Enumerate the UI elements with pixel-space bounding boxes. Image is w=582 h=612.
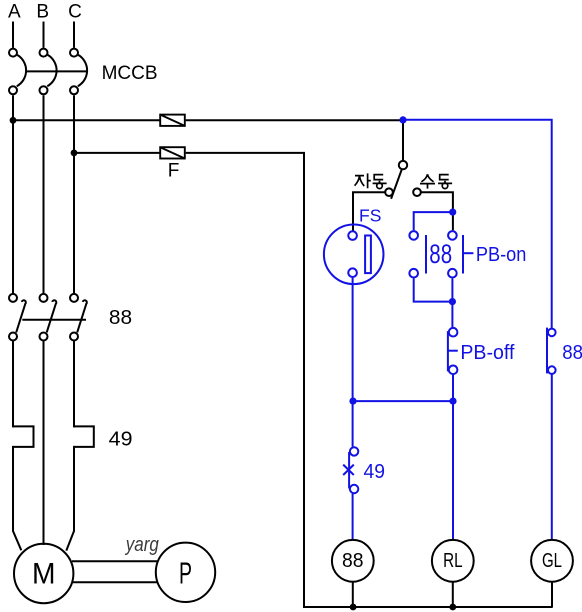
wire holding contact bottom [414, 278, 453, 301]
selector switch common [399, 161, 407, 169]
wire left return [303, 153, 305, 607]
junction selector feed [399, 116, 406, 123]
junction coil bus [350, 604, 357, 611]
wire phase C top [73, 22, 75, 48]
wire pb-on bottom [451, 278, 453, 327]
wire lower feed right [186, 152, 305, 154]
svg-text:88: 88 [109, 307, 132, 329]
wire selector feed [402, 120, 404, 160]
svg-text:GL: GL [542, 549, 562, 572]
svg-text:yarg: yarg [124, 534, 159, 556]
svg-text:M: M [32, 557, 56, 590]
wire bottom bus [303, 606, 553, 608]
junction manual branch [449, 209, 456, 216]
pushbutton PB-on [448, 231, 473, 277]
pump P [156, 543, 215, 602]
wire phase C to motor [66, 446, 74, 551]
wire GL to bus [551, 582, 553, 608]
breaker MCCB [9, 49, 88, 95]
svg-text:F: F [168, 161, 180, 182]
junction RL bus [449, 604, 456, 611]
wire pb-off to RL [452, 375, 454, 540]
svg-text:PB-off: PB-off [460, 342, 514, 364]
svg-text:FS: FS [359, 205, 381, 225]
junction coil branch [449, 398, 456, 405]
junction phase A control tap [10, 117, 17, 124]
svg-text:49: 49 [109, 429, 133, 451]
label 수동 [420, 174, 452, 188]
contact 88 break [547, 328, 556, 374]
wire phase C [73, 95, 75, 293]
svg-text:88: 88 [342, 550, 364, 572]
svg-text:88: 88 [429, 239, 452, 269]
junction phase C control tap [71, 150, 78, 157]
svg-text:RL: RL [443, 549, 463, 572]
junction FS branch [349, 398, 356, 405]
svg-text:P: P [179, 556, 192, 591]
wire 88 break to GL [551, 374, 553, 540]
wire coil 88 to bus [352, 582, 354, 608]
svg-text:49: 49 [364, 461, 386, 483]
wire control feed upper [13, 119, 160, 121]
wire phase A [12, 95, 14, 293]
wire phase B top [43, 22, 45, 48]
coupling shaft [72, 561, 157, 582]
svg-text:A: A [8, 2, 21, 23]
svg-text:MCCB: MCCB [102, 63, 158, 84]
motor M [14, 544, 73, 603]
wire phase B [43, 95, 45, 293]
coil 88 [332, 540, 374, 582]
svg-text:88: 88 [562, 341, 582, 364]
junction holding bottom [449, 298, 456, 305]
svg-text:PB-on: PB-on [476, 244, 527, 266]
float switch FS [324, 225, 384, 285]
fuse upper [160, 115, 185, 126]
selector contact manual [413, 188, 421, 196]
wire phase B to motor [43, 341, 45, 545]
wire phase A mid [12, 341, 14, 428]
lamp RL [432, 540, 474, 582]
lamp GL [531, 540, 573, 582]
selector contact auto [385, 188, 393, 196]
wire control hot rail [403, 120, 552, 328]
contactor 88 main contacts [9, 294, 87, 341]
contact 88 holding [409, 231, 426, 277]
wire to holding contact [414, 212, 453, 230]
wire phase C mid [73, 341, 75, 428]
label 자동 [355, 173, 387, 188]
wire FS to junction [352, 278, 354, 447]
wire control feed lower [74, 152, 160, 154]
wire RL to bus [452, 582, 454, 608]
svg-text:B: B [36, 2, 49, 23]
pushbutton PB-off [448, 328, 458, 374]
wire auto contact to FS [353, 192, 385, 230]
wire cross tie [353, 400, 453, 402]
svg-text:C: C [68, 2, 82, 23]
wire manual contact down [421, 192, 453, 230]
wire phase A to motor [13, 446, 21, 550]
wire upper feed to selector [186, 119, 403, 121]
wire phase A top [12, 22, 14, 48]
contact 49 thermal [343, 447, 358, 493]
wire 49 to coil 88 [352, 493, 354, 540]
overload 49 heater phase A [13, 426, 34, 447]
selector lever [391, 170, 402, 199]
overload 49 heater phase C [74, 426, 94, 447]
fuse F [160, 147, 185, 158]
